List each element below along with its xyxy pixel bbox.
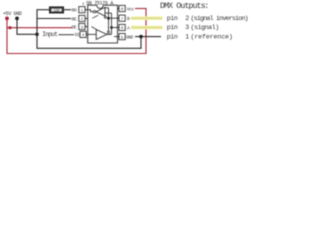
- junction dot input node: [35, 33, 39, 37]
- junction dot A: [110, 26, 113, 29]
- wire GND bottom run: [37, 37, 142, 49]
- wire R to bubble: [88, 10, 93, 12]
- svg-text:B: B: [127, 16, 130, 22]
- wire A row inside: [112, 27, 118, 29]
- svg-text:DMX Outputs:: DMX Outputs:: [160, 2, 208, 11]
- pin box 2: [79, 15, 85, 21]
- enable diagonal DE: [92, 27, 99, 31]
- wire +5V bottom rail: [7, 53, 147, 55]
- wire resistor to pin 1: [63, 9, 71, 11]
- driver bubble: [107, 31, 109, 33]
- pin 1 index tick: [82, 3, 84, 6]
- wire +5V vertical: [6, 18, 8, 54]
- svg-text:RE: RE: [72, 16, 77, 22]
- resistor 120: [50, 7, 64, 13]
- pin box 3: [79, 24, 85, 30]
- svg-text:pin3(signal): pin3(signal): [167, 24, 219, 31]
- wire driver output: [107, 33, 112, 35]
- svg-text:DI: DI: [75, 32, 80, 38]
- svg-text:Vcc: Vcc: [127, 6, 135, 12]
- wire receiver input upper: [105, 7, 109, 9]
- svg-text:GND: GND: [126, 35, 134, 41]
- wire GND net vertical: [36, 10, 38, 49]
- pin box 1: [79, 7, 85, 13]
- wire to resistor: [37, 9, 50, 11]
- svg-text:A: A: [127, 25, 130, 31]
- pin box 7: [119, 15, 125, 21]
- yellow highlight B wire: [131, 16, 163, 20]
- terminal GND (black dot): [15, 17, 19, 21]
- svg-text:Input: Input: [42, 31, 57, 38]
- svg-text:RO: RO: [72, 8, 77, 14]
- wire driver input: [88, 33, 96, 35]
- pin box 6: [119, 24, 125, 30]
- wire GND to DMX pin1: [135, 36, 161, 38]
- wire Vcc horizontal to pin 8: [135, 8, 147, 10]
- pin box 4: [80, 31, 86, 37]
- svg-text:SN 75176 A: SN 75176 A: [86, 0, 114, 6]
- wire B row inside: [109, 17, 118, 19]
- wire GND vertical from terminal: [17, 18, 37, 34]
- svg-text:GND: GND: [14, 11, 22, 17]
- wire RE row: [37, 18, 71, 20]
- pin box 8: [119, 5, 125, 11]
- receiver bubble: [93, 11, 95, 13]
- wire B net vertical: [108, 8, 110, 31]
- wire input arrow: [59, 34, 75, 36]
- wire A net vertical: [111, 13, 113, 34]
- wire Vcc right vertical: [145, 9, 147, 55]
- wire pin5 stub inside: [114, 36, 118, 38]
- junction dot GND: [139, 35, 143, 39]
- pin box 5: [119, 34, 125, 40]
- svg-text:pin1(reference): pin1(reference): [167, 33, 233, 40]
- receiver enable bubble: [104, 16, 106, 18]
- wire +5V branch to DE: [7, 27, 72, 29]
- receiver triangle: [96, 7, 105, 16]
- svg-text:+5V: +5V: [3, 11, 11, 17]
- IC U1 SN75176A body: [88, 5, 118, 43]
- svg-text:DE: DE: [72, 24, 77, 30]
- wire receiver input lower: [105, 12, 112, 14]
- junction red dot: [8, 26, 11, 29]
- svg-text:120: 120: [54, 9, 60, 13]
- enable diagonal RE: [92, 15, 98, 18]
- terminal +5V (red dot): [5, 17, 9, 21]
- yellow highlight A wire: [131, 26, 163, 30]
- junction dot B: [107, 17, 110, 20]
- driver triangle: [96, 30, 107, 40]
